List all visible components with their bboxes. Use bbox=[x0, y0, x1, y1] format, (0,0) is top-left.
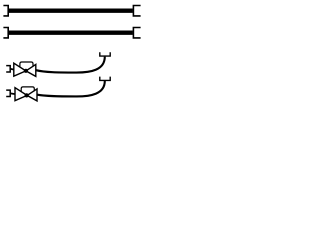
valve V1 left triangle bbox=[14, 63, 26, 76]
connector J6 (upward plug of wire W3) bbox=[100, 52, 110, 56]
wire W4 (valve V2 to connector J8) bbox=[37, 81, 105, 97]
connector J4 (right plug of cable W2) bbox=[133, 28, 140, 38]
valve V2 bonnet box bbox=[21, 87, 34, 92]
wire W3 (valve V1 to connector J6) bbox=[36, 57, 105, 73]
valve V1 center dot bbox=[24, 69, 28, 73]
wire W2 (second cable) bbox=[9, 31, 133, 35]
connector J2 (right plug of cable W1) bbox=[133, 6, 140, 16]
valve V1 right triangle bbox=[26, 64, 36, 76]
valve V2 left triangle bbox=[15, 88, 27, 101]
wire stub to valve V1 bbox=[10, 68, 14, 71]
connector J5 (left plug of valve V1) bbox=[6, 66, 10, 72]
connector J8 (upward plug of wire W4) bbox=[100, 77, 110, 81]
valve V2 center dot bbox=[25, 93, 29, 97]
wire stub to valve V2 bbox=[10, 92, 15, 95]
connector J3 (left plug of cable W2) bbox=[3, 28, 8, 38]
valve V2 right triangle bbox=[27, 89, 37, 101]
connector J1 (left plug of cable W1) bbox=[3, 6, 8, 16]
valve V1 bonnet box bbox=[20, 62, 33, 67]
wire W1 (top cable) bbox=[9, 9, 133, 13]
connector J7 (left plug of valve V2) bbox=[6, 90, 10, 96]
